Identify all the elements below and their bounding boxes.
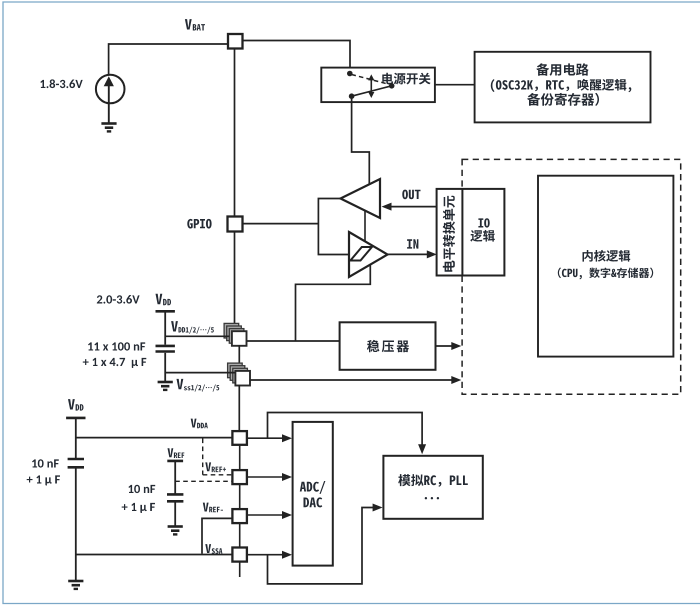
node VREF- pin	[232, 509, 247, 523]
level shifter U4 box	[437, 189, 505, 276]
arrow VSS to core	[250, 376, 462, 384]
capacitor C2 10nF+1uF	[167, 494, 183, 501]
wire	[247, 340, 340, 342]
ground	[68, 581, 83, 589]
label 模拟RC，PLL	[398, 474, 468, 487]
wire VSSA feed	[76, 554, 233, 556]
capacitor C1 11x100nF	[156, 346, 175, 352]
regulator U5 稳压器 box	[340, 322, 436, 370]
label VDD1/2/.../5	[171, 321, 214, 334]
dashed link VDDA to VREF+	[203, 439, 233, 475]
wire	[75, 468, 77, 554]
arrow VREF- to ADC	[247, 511, 292, 519]
signal OUT arrow	[382, 203, 438, 211]
label dots	[425, 497, 439, 499]
wire	[165, 372, 235, 374]
label 2.0-3.6V	[97, 295, 140, 304]
dashed boundary MCU	[462, 159, 681, 394]
ADC/DAC box	[293, 422, 333, 566]
label VSSA	[205, 544, 222, 554]
wire	[239, 445, 241, 470]
wire	[234, 49, 236, 217]
label VDD	[156, 294, 172, 306]
wire	[238, 345, 240, 368]
label Vss1/2/.../5	[177, 379, 220, 392]
wire	[239, 562, 241, 577]
label VDD bottom	[68, 399, 84, 411]
wire	[164, 311, 166, 344]
switch toggle arrow	[368, 74, 374, 98]
schmitt trigger U3	[349, 232, 388, 277]
VDD supply rail	[156, 310, 175, 313]
node VSS1..5 pins	[228, 363, 250, 385]
switch contact (closed throw)	[352, 86, 392, 96]
node GPIO pin	[228, 217, 243, 232]
arrow regulator to core	[436, 342, 462, 350]
label 10 nF	[32, 459, 59, 467]
VREF supply rail	[167, 460, 183, 463]
power switch SW1 box	[321, 68, 435, 103]
wire	[243, 223, 319, 225]
wire VREF- return	[202, 518, 232, 553]
node VBAT pin	[228, 34, 243, 49]
wire	[174, 502, 176, 525]
label GPIO	[187, 219, 211, 229]
label OUT	[402, 190, 420, 200]
wire	[234, 232, 236, 329]
buffer U2 output driver	[341, 179, 381, 218]
label + 1 x 4.7 uF	[83, 358, 147, 368]
node VDD1..5 pins	[224, 323, 246, 345]
label + 1 uF	[122, 503, 155, 513]
label 10 nF	[128, 485, 155, 493]
wire VDDA feed	[76, 437, 233, 439]
wire	[318, 199, 349, 255]
core logic box 内核逻辑	[538, 176, 673, 357]
analog RC PLL box	[383, 456, 482, 519]
wire	[239, 523, 241, 547]
label VDDA	[191, 419, 208, 429]
label VREF+	[205, 462, 226, 472]
signal IN arrow	[388, 250, 437, 258]
node VDDA pin	[232, 431, 247, 445]
wire	[75, 418, 77, 458]
label 1.8-3.6V	[40, 79, 82, 88]
voltage source V1	[96, 75, 125, 104]
label 备用电路 lines	[491, 63, 632, 106]
label + 1 uF	[27, 475, 60, 485]
wire	[109, 44, 228, 75]
node VREF+ pin	[232, 470, 247, 484]
label VREF	[168, 448, 185, 458]
switch contact (dashed throw)	[352, 75, 390, 85]
arrow VDDA to ADC	[247, 434, 292, 442]
label ADC/DAC	[300, 481, 326, 507]
ground	[101, 124, 116, 132]
backup circuit box 备用电路	[475, 52, 651, 123]
label IO 逻辑	[470, 218, 495, 242]
arrow VSSA to ADC	[247, 551, 292, 559]
wire	[352, 98, 370, 184]
wire	[243, 41, 351, 71]
ground	[158, 382, 173, 390]
label VBAT	[185, 19, 205, 30]
wire	[238, 385, 240, 431]
wire VSSA to analog	[268, 504, 383, 584]
switch pole dots	[347, 71, 395, 99]
label IN	[407, 239, 418, 248]
dashed link VREF to VREF+	[175, 480, 232, 482]
wire	[164, 353, 166, 381]
wire	[75, 555, 77, 581]
capacitor C3 10nF+1uF	[68, 459, 84, 467]
wire	[165, 335, 229, 337]
node VSSA pin	[232, 548, 247, 562]
wire	[435, 84, 475, 86]
label 11 x 100 nF	[88, 342, 145, 350]
VDD supply rail	[66, 417, 85, 420]
wire	[174, 461, 176, 494]
label 电平转换单元 (vertical)	[443, 196, 455, 272]
wire	[239, 484, 241, 509]
arrow VREF+ to ADC	[247, 473, 292, 481]
label 内核逻辑 lines	[558, 250, 653, 280]
wire	[108, 103, 110, 122]
wire	[296, 265, 371, 341]
label 电源开关	[382, 73, 430, 85]
label VREF-	[203, 503, 223, 513]
wire VDDA to analog top	[268, 413, 427, 455]
label 稳压器	[367, 340, 409, 352]
wire	[364, 211, 366, 242]
ground	[168, 527, 183, 535]
